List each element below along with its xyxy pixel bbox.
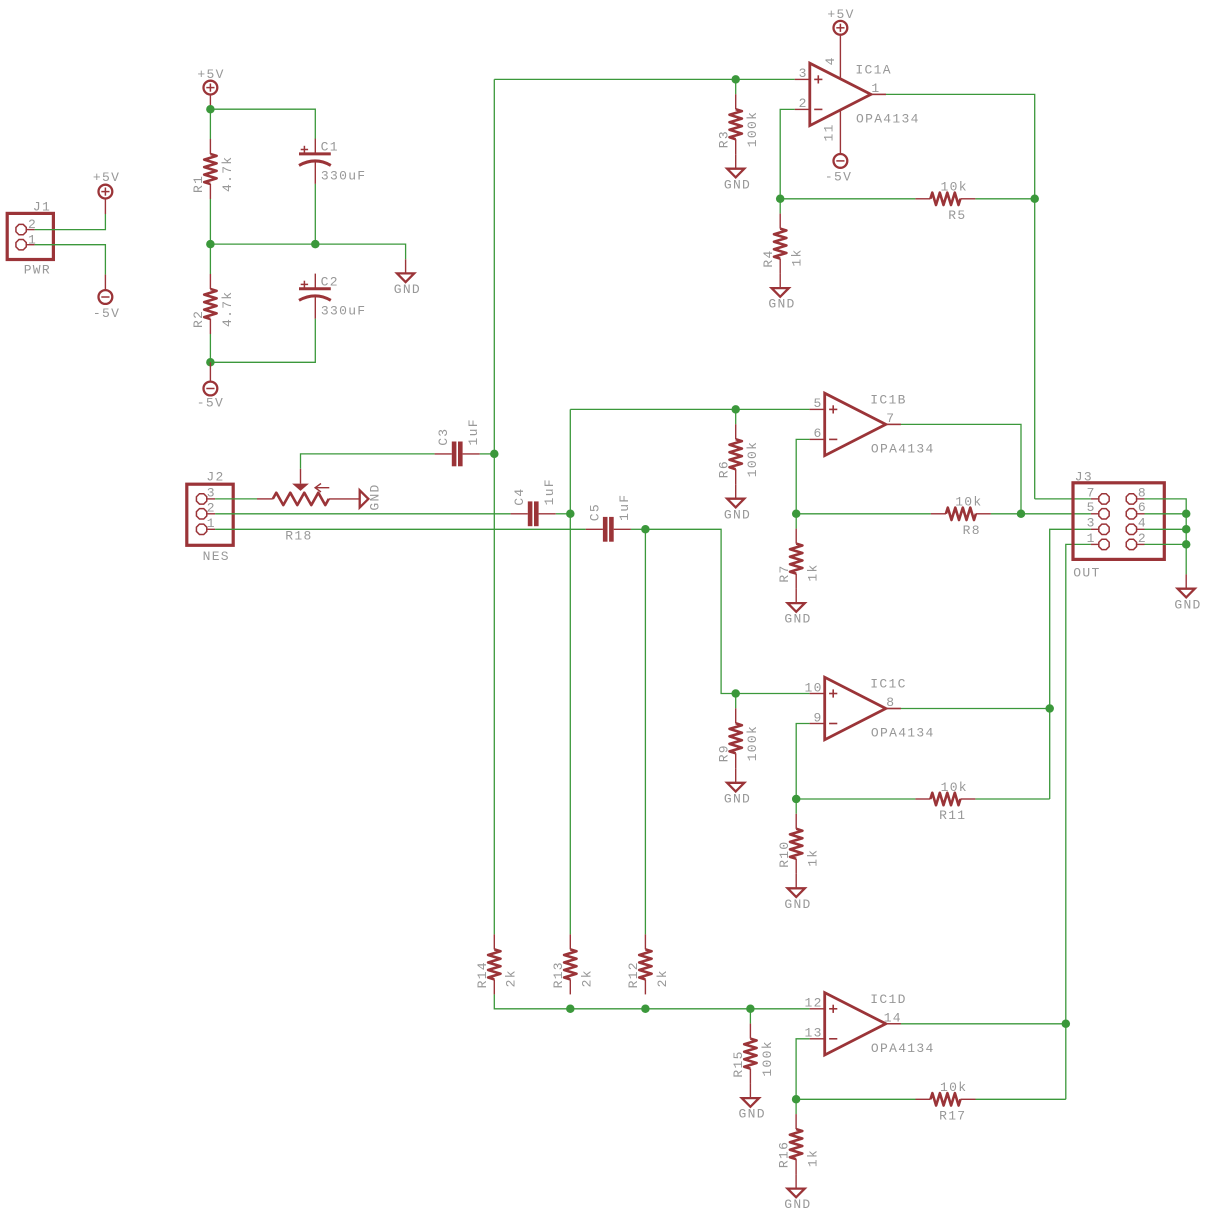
resistor R5 10k bbox=[915, 180, 975, 223]
J2 pin 3 stub bbox=[207, 498, 215, 500]
node mid rail at C2 bbox=[311, 240, 320, 249]
supply -5V symbol below R2 bbox=[204, 382, 218, 396]
wire J1 pin1 to -5V bbox=[35, 245, 106, 275]
svg-text:10k: 10k bbox=[941, 780, 968, 795]
ground stub R3 bbox=[735, 154, 737, 169]
wire feedback C left bbox=[796, 798, 915, 800]
wire R18 wiper to C3 bbox=[301, 454, 435, 469]
svg-text:11: 11 bbox=[822, 123, 837, 141]
ground stub R6 bbox=[735, 484, 737, 499]
resistor R10 1k bbox=[777, 814, 821, 874]
connector J2 pad 3 bbox=[196, 494, 206, 504]
wire R10 top bbox=[795, 799, 797, 814]
svg-text:C2: C2 bbox=[321, 275, 339, 290]
wire R6 top bbox=[735, 409, 737, 424]
wire net B to IC1B pin5 bbox=[570, 408, 809, 410]
op-amp IC1D bbox=[804, 992, 934, 1056]
wire feedback B left bbox=[796, 513, 931, 515]
connector J3 box bbox=[1073, 483, 1164, 560]
wire J3 pin8 gnd bbox=[1145, 499, 1187, 514]
ground at R6 bbox=[727, 499, 744, 508]
svg-text:3: 3 bbox=[799, 66, 808, 81]
ground mid rail bbox=[397, 273, 414, 282]
wire net C vertical bbox=[644, 529, 646, 934]
node IC1B pin5 R6 bbox=[731, 405, 740, 414]
svg-text:OPA4134: OPA4134 bbox=[856, 112, 920, 127]
svg-text:R8: R8 bbox=[963, 523, 981, 538]
wire IC1C pin9 bbox=[796, 724, 809, 800]
svg-text:100k: 100k bbox=[745, 725, 760, 761]
svg-text:R2: R2 bbox=[191, 310, 206, 328]
capacitor C1 330uF bbox=[299, 139, 366, 184]
node J3 gnd pin2 bbox=[1182, 540, 1191, 549]
svg-text:C5: C5 bbox=[587, 503, 602, 521]
svg-text:2k: 2k bbox=[655, 969, 670, 987]
wire R7 top bbox=[795, 514, 797, 529]
J1 pin 2 stub bbox=[27, 229, 35, 231]
node out A feedback bbox=[1030, 195, 1039, 204]
wire C2 to bottom rail bbox=[210, 319, 315, 363]
resistor R8 10k bbox=[931, 495, 991, 538]
svg-text:GND: GND bbox=[784, 1197, 811, 1212]
wire IC1C output bbox=[901, 708, 1050, 710]
op-amp IC1B bbox=[810, 393, 935, 457]
ground at R16 bbox=[788, 1189, 805, 1198]
ground stub R4 bbox=[779, 274, 781, 289]
ground at R7 bbox=[788, 603, 805, 612]
svg-text:10k: 10k bbox=[940, 1080, 967, 1095]
wire C1 to mid rail bbox=[314, 184, 316, 244]
svg-text:2k: 2k bbox=[580, 969, 595, 987]
ground stub R10 bbox=[795, 874, 797, 889]
wire +5V rail to C1 bbox=[210, 109, 315, 139]
node B C4 output bbox=[566, 510, 575, 519]
capacitor C3 1uF bbox=[435, 418, 481, 466]
wire out C to J3 pin3 bbox=[1050, 529, 1091, 799]
connector J3 pad 8 bbox=[1126, 494, 1136, 504]
ground at R18 bbox=[360, 490, 369, 507]
node C C5 output bbox=[641, 525, 650, 534]
supply -5V symbol at J1 bbox=[99, 290, 113, 304]
ground at R4 bbox=[772, 288, 789, 297]
svg-text:R10: R10 bbox=[777, 840, 792, 867]
wire feedback C right bbox=[975, 798, 1049, 800]
svg-text:1k: 1k bbox=[806, 1149, 821, 1167]
svg-text:1: 1 bbox=[1087, 531, 1096, 546]
svg-text:6: 6 bbox=[1138, 500, 1147, 515]
svg-text:PWR: PWR bbox=[24, 262, 51, 277]
svg-text:J2: J2 bbox=[206, 470, 224, 485]
svg-text:9: 9 bbox=[814, 710, 823, 725]
svg-text:GND: GND bbox=[768, 297, 795, 312]
svg-text:R3: R3 bbox=[716, 130, 731, 148]
wire R1 to mid rail bbox=[209, 199, 211, 244]
svg-text:IC1B: IC1B bbox=[870, 393, 906, 408]
wire feedback A left bbox=[780, 198, 915, 200]
op-amp IC1A bbox=[795, 63, 920, 127]
resistor R12 2k bbox=[626, 934, 670, 994]
svg-text:4.7k: 4.7k bbox=[220, 291, 235, 327]
IC1A pin 11 stub bbox=[839, 110, 841, 154]
wire IC1B pin6 bbox=[796, 439, 809, 513]
svg-text:5: 5 bbox=[814, 396, 823, 411]
svg-text:J3: J3 bbox=[1075, 470, 1093, 485]
node J3 gnd pin6 bbox=[1182, 510, 1191, 519]
wire R14 bottom bbox=[494, 994, 809, 1008]
wire out D to J3 pin1 bbox=[1066, 544, 1091, 1099]
svg-text:IC1D: IC1D bbox=[870, 992, 906, 1007]
resistor R11 10k bbox=[915, 780, 975, 823]
svg-text:GND: GND bbox=[724, 507, 751, 522]
svg-text:C3: C3 bbox=[436, 428, 451, 446]
node +5V rail junction bbox=[206, 105, 215, 114]
resistor R16 1k bbox=[777, 1114, 821, 1174]
wire R2 to -5V rail bbox=[209, 334, 211, 362]
J3 pin 8 stub bbox=[1137, 498, 1145, 500]
svg-text:100k: 100k bbox=[760, 1040, 775, 1076]
svg-text:GND: GND bbox=[739, 1107, 766, 1122]
wire IC1D pin13 bbox=[796, 1039, 810, 1100]
ground stub R9 bbox=[735, 768, 737, 783]
supply +5V symbol at IC1A bbox=[834, 21, 848, 35]
svg-text:-5V: -5V bbox=[93, 306, 120, 321]
connector J3 pad 1 bbox=[1099, 539, 1109, 549]
svg-text:IC1C: IC1C bbox=[870, 677, 906, 692]
node J3 gnd pin4 bbox=[1182, 525, 1191, 534]
svg-text:R14: R14 bbox=[475, 961, 490, 988]
connector J3 pad 4 bbox=[1126, 524, 1136, 534]
J2 pin 1 stub bbox=[207, 528, 215, 530]
svg-text:R9: R9 bbox=[716, 744, 731, 762]
svg-text:GND: GND bbox=[724, 177, 751, 192]
ground stub R16 bbox=[795, 1174, 797, 1189]
connector J3 pad 2 bbox=[1126, 539, 1136, 549]
wire J3 gnd down bbox=[1185, 514, 1187, 575]
ground stub R7 bbox=[795, 589, 797, 604]
IC1A output stub bbox=[871, 93, 886, 95]
svg-text:C4: C4 bbox=[512, 487, 527, 505]
svg-text:3: 3 bbox=[1087, 516, 1096, 531]
node IC1A feedback bbox=[776, 195, 785, 204]
wire net A to IC1A pin3 bbox=[494, 78, 794, 80]
svg-text:1uF: 1uF bbox=[466, 418, 481, 445]
connector J3 pad 3 bbox=[1099, 524, 1109, 534]
resistor R3 100k bbox=[716, 94, 760, 154]
svg-text:R5: R5 bbox=[948, 208, 966, 223]
resistor R2 4.7k bbox=[191, 274, 235, 334]
node IC1B feedback bbox=[792, 510, 801, 519]
connector J3 pad 7 bbox=[1099, 494, 1109, 504]
svg-text:R15: R15 bbox=[731, 1050, 746, 1077]
svg-text:12: 12 bbox=[804, 996, 822, 1011]
wire mid rail bbox=[210, 244, 405, 259]
J3 pin 2 stub bbox=[1137, 543, 1145, 545]
svg-text:1uF: 1uF bbox=[542, 478, 557, 505]
wire J1 pin2 to +5V bbox=[35, 214, 106, 230]
J2 pin 2 stub bbox=[207, 513, 215, 515]
svg-text:-5V: -5V bbox=[825, 169, 852, 184]
capacitor C4 1uF bbox=[511, 478, 557, 526]
svg-text:GND: GND bbox=[784, 612, 811, 627]
node out D bbox=[1062, 1020, 1071, 1029]
supply +5V symbol above R1 bbox=[204, 81, 218, 95]
J3 pin 4 stub bbox=[1137, 528, 1145, 530]
svg-text:OUT: OUT bbox=[1073, 566, 1100, 581]
svg-text:OPA4134: OPA4134 bbox=[871, 442, 935, 457]
svg-text:330uF: 330uF bbox=[321, 303, 367, 318]
potentiometer R18 bbox=[257, 469, 360, 544]
ground at J3 bbox=[1178, 589, 1195, 598]
ground at R3 bbox=[727, 169, 744, 178]
svg-text:4.7k: 4.7k bbox=[220, 156, 235, 192]
svg-text:+5V: +5V bbox=[93, 170, 120, 185]
wire J2 pin1 to C5 bbox=[215, 528, 586, 530]
svg-text:R11: R11 bbox=[939, 808, 966, 823]
ground stub mid rail bbox=[405, 259, 407, 273]
svg-text:1k: 1k bbox=[806, 849, 821, 867]
svg-text:GND: GND bbox=[784, 897, 811, 912]
capacitor C2 330uF bbox=[299, 274, 366, 319]
wire IC1A pin2 bbox=[780, 109, 795, 198]
wire C3 to node A bbox=[480, 453, 495, 455]
svg-text:GND: GND bbox=[1174, 597, 1201, 612]
wire J3 pin4 gnd bbox=[1145, 528, 1187, 530]
connector J3 pad 5 bbox=[1099, 509, 1109, 519]
resistor R9 100k bbox=[716, 708, 760, 768]
wire feedback D left bbox=[796, 1098, 915, 1100]
svg-text:1k: 1k bbox=[790, 248, 805, 266]
supply -5V stub below R2 bbox=[209, 362, 211, 381]
svg-text:3: 3 bbox=[207, 486, 216, 501]
svg-text:GND: GND bbox=[368, 483, 383, 510]
svg-text:10: 10 bbox=[804, 680, 822, 695]
wire R15 top bbox=[749, 1009, 751, 1024]
wire feedback B right bbox=[991, 513, 1021, 515]
connector J1 pad 1 bbox=[16, 240, 26, 250]
wire J3 pin2 gnd bbox=[1145, 543, 1187, 545]
svg-text:2k: 2k bbox=[504, 969, 519, 987]
svg-text:8: 8 bbox=[1138, 485, 1147, 500]
svg-text:4: 4 bbox=[1138, 516, 1147, 531]
J3 pin 7 stub bbox=[1091, 498, 1099, 500]
wire R9 top bbox=[735, 694, 737, 709]
J3 pin 1 stub bbox=[1091, 543, 1099, 545]
IC1B output stub bbox=[886, 423, 901, 425]
svg-text:6: 6 bbox=[814, 426, 823, 441]
wire R3 top bbox=[735, 79, 737, 94]
IC1A pin 4 stub bbox=[839, 35, 841, 79]
J3 pin 6 stub bbox=[1137, 513, 1145, 515]
wire R4 top bbox=[779, 199, 781, 214]
node IC1A pin3 R3 bbox=[731, 75, 740, 84]
node mix R15 bbox=[746, 1005, 755, 1014]
ground at R9 bbox=[727, 783, 744, 792]
node out C bbox=[1045, 704, 1054, 713]
ground at R10 bbox=[788, 888, 805, 897]
node A C3 output bbox=[490, 450, 499, 459]
svg-text:1uF: 1uF bbox=[617, 494, 632, 521]
svg-text:100k: 100k bbox=[745, 111, 760, 147]
connector J1 box bbox=[7, 213, 53, 259]
connector J3 pad 6 bbox=[1126, 509, 1136, 519]
supply +5V stub at J1 bbox=[104, 199, 106, 214]
svg-text:R17: R17 bbox=[939, 1108, 966, 1123]
svg-text:1: 1 bbox=[207, 516, 216, 531]
svg-text:2: 2 bbox=[207, 500, 216, 515]
wire out A to J3 pin7 bbox=[1035, 498, 1091, 500]
connector J2 pad 1 bbox=[196, 524, 206, 534]
connector J2 box bbox=[187, 484, 233, 545]
node -5V rail junction bbox=[206, 358, 215, 367]
svg-text:IC1A: IC1A bbox=[855, 63, 891, 78]
wire feedback A right bbox=[975, 198, 1034, 200]
wire IC1A output bbox=[886, 94, 1035, 499]
svg-text:R6: R6 bbox=[716, 460, 731, 478]
supply +5V stub above R1 bbox=[209, 95, 211, 110]
wire mid rail to R2 bbox=[209, 244, 211, 274]
node out B feedback bbox=[1017, 510, 1026, 519]
svg-text:R18: R18 bbox=[285, 528, 312, 543]
wire J2 pin2 to C4 bbox=[215, 513, 511, 515]
wire +5V rail down to R1 bbox=[209, 109, 211, 139]
node IC1C pin10 R9 bbox=[731, 689, 740, 698]
ground at R15 bbox=[742, 1098, 759, 1107]
svg-text:R12: R12 bbox=[626, 961, 641, 988]
svg-text:R4: R4 bbox=[761, 249, 776, 267]
resistor R6 100k bbox=[716, 424, 760, 484]
svg-text:GND: GND bbox=[724, 791, 751, 806]
node IC1D feedback bbox=[792, 1095, 801, 1104]
svg-text:2: 2 bbox=[799, 96, 808, 111]
wire C5 to node C bbox=[631, 528, 646, 530]
node mid rail at R2 bbox=[206, 240, 215, 249]
wire R16 top bbox=[795, 1099, 797, 1114]
svg-text:10k: 10k bbox=[955, 495, 982, 510]
svg-text:330uF: 330uF bbox=[321, 169, 367, 184]
svg-text:7: 7 bbox=[1087, 485, 1096, 500]
supply +5V symbol at J1 bbox=[99, 185, 113, 199]
wire out B to J3 pin5 bbox=[1021, 513, 1091, 515]
wire J2 pin3 to R18 bbox=[215, 498, 257, 500]
supply -5V symbol at IC1A bbox=[834, 154, 848, 168]
svg-text:R16: R16 bbox=[777, 1141, 792, 1168]
wire C4 to node B bbox=[556, 513, 571, 515]
wire J3 pin6 gnd bbox=[1145, 513, 1187, 515]
svg-text:2: 2 bbox=[1138, 531, 1147, 546]
svg-text:100k: 100k bbox=[745, 441, 760, 477]
svg-text:10k: 10k bbox=[941, 180, 968, 195]
node mix R13 bbox=[566, 1005, 575, 1014]
J3 pin 3 stub bbox=[1091, 528, 1099, 530]
resistor R15 100k bbox=[731, 1024, 775, 1084]
connector J1 pad 2 bbox=[16, 224, 26, 234]
resistor R4 1k bbox=[761, 214, 805, 274]
supply -5V stub at J1 bbox=[104, 275, 106, 291]
wire net B vertical bbox=[569, 409, 571, 934]
svg-text:1k: 1k bbox=[806, 563, 821, 581]
resistor R17 10k bbox=[916, 1080, 976, 1123]
node mix R12 bbox=[641, 1005, 650, 1014]
svg-text:OPA4134: OPA4134 bbox=[871, 726, 935, 741]
svg-text:5: 5 bbox=[1087, 500, 1096, 515]
svg-text:R7: R7 bbox=[777, 564, 792, 582]
wire net A vertical bbox=[493, 79, 495, 934]
wire IC1D output bbox=[901, 1023, 1066, 1025]
svg-text:GND: GND bbox=[394, 282, 421, 297]
svg-text:+5V: +5V bbox=[827, 7, 854, 22]
resistor R13 2k bbox=[551, 934, 595, 994]
svg-text:J1: J1 bbox=[33, 200, 51, 215]
resistor R1 4.7k bbox=[191, 139, 235, 199]
op-amp IC1C bbox=[804, 677, 934, 741]
J1 pin 1 stub bbox=[27, 244, 35, 246]
svg-text:R13: R13 bbox=[551, 961, 566, 988]
wire feedback D right bbox=[976, 1098, 1066, 1100]
capacitor C5 1uF bbox=[586, 494, 632, 542]
wire IC1B output bbox=[901, 424, 1021, 513]
IC1D output stub bbox=[886, 1023, 901, 1025]
svg-text:4: 4 bbox=[823, 56, 838, 65]
resistor R14 2k bbox=[475, 934, 519, 994]
svg-text:-5V: -5V bbox=[197, 396, 224, 411]
node IC1C feedback bbox=[792, 795, 801, 804]
ground stub J3 bbox=[1185, 574, 1187, 588]
svg-text:C1: C1 bbox=[321, 140, 339, 155]
ground stub R15 bbox=[749, 1084, 751, 1099]
svg-text:R1: R1 bbox=[191, 175, 206, 193]
connector J2 pad 2 bbox=[196, 509, 206, 519]
resistor R7 1k bbox=[777, 529, 821, 589]
J3 pin 5 stub bbox=[1091, 513, 1099, 515]
svg-text:OPA4134: OPA4134 bbox=[871, 1041, 935, 1056]
IC1C output stub bbox=[886, 708, 901, 710]
wire net C to IC1C pin10 bbox=[645, 529, 809, 693]
svg-text:NES: NES bbox=[203, 549, 230, 564]
